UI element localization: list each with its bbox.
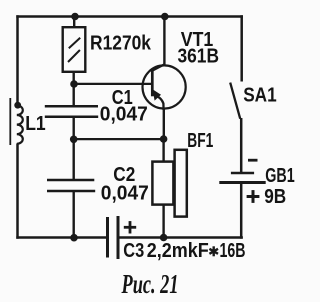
wire C1 bottom to junction (72, 117, 74, 140)
wire BF1 bottom stub (162, 205, 164, 239)
wire junction to C2 (72, 139, 74, 180)
capacitor C3 asterisk (209, 246, 218, 256)
node dot R1 bottom / base (70, 80, 78, 88)
inductor L1 start dot (14, 102, 21, 109)
svg-text:C3: C3 (123, 240, 144, 262)
svg-text:16В: 16В (220, 240, 246, 262)
battery GB1 plus sign (247, 195, 260, 198)
wire right vertical lower (battery to bottom) (240, 183, 243, 239)
node dot emitter / BF1 junction (160, 135, 168, 143)
svg-text:SA1: SA1 (243, 85, 277, 107)
capacitor C3 left plate (106, 217, 109, 258)
node dot bottom wire / C2 (70, 234, 78, 242)
wire R1 bottom to C1 (72, 71, 74, 107)
battery GB1 positive plate (219, 181, 265, 184)
wire bottom-right horizontal (119, 236, 243, 239)
svg-text:0,047: 0,047 (100, 104, 148, 126)
earphone BF1 diaphragm (175, 150, 187, 217)
earphone BF1 body (152, 162, 173, 205)
svg-text:361В: 361В (178, 46, 220, 68)
inductor L1 core bar (9, 98, 11, 145)
battery GB1 minus sign (248, 159, 258, 162)
svg-text:L1: L1 (25, 113, 46, 135)
capacitor C3 right plate (117, 216, 120, 259)
transistor VT1 collector stroke (153, 64, 165, 70)
wire collector vertical (163, 16, 165, 66)
transistor VT1 emitter arrow (153, 89, 162, 100)
node dot top wire / collector (161, 13, 169, 21)
switch SA1 blade (230, 83, 240, 119)
transistor VT1 emitter stroke (153, 94, 164, 110)
wire bottom-left horizontal (16, 236, 106, 239)
wire base horizontal (74, 83, 152, 85)
capacitor C2 plates (47, 179, 94, 182)
capacitor C1 plates (45, 105, 98, 108)
wire left vertical lower (16, 144, 19, 239)
resistor R1 slash marks (69, 38, 80, 48)
wire right vertical upper (240, 15, 243, 81)
wire BF1 top stub (162, 139, 164, 163)
capacitor C3 plus sign (124, 226, 136, 229)
svg-text:GB1: GB1 (265, 165, 295, 187)
node dot C1 bottom junction (70, 136, 78, 144)
inductor L1 winding (17, 105, 23, 143)
svg-text:2,2mkF: 2,2mkF (147, 240, 209, 262)
svg-text:9В: 9В (264, 186, 286, 208)
transistor VT1 circle (143, 65, 186, 108)
svg-text:Рис. 21: Рис. 21 (121, 269, 179, 299)
wire right vertical middle (switch to battery) (240, 118, 243, 173)
node dot bottom wire / BF1 (160, 234, 168, 242)
svg-text:BF1: BF1 (187, 130, 213, 152)
wire R1 top stub (73, 16, 75, 28)
wire emitter vertical (163, 109, 165, 141)
wire left vertical upper (16, 15, 19, 106)
svg-text:R1270k: R1270k (90, 32, 152, 54)
battery GB1 negative plate (231, 172, 254, 175)
transistor VT1 base bar (151, 70, 154, 96)
wire C2 bottom to bottom wire (72, 192, 74, 239)
node dot top wire / R1 (71, 13, 79, 21)
svg-text:0,047: 0,047 (101, 183, 149, 205)
wire emitter junction horizontal (74, 138, 164, 140)
resistor R1 body (63, 27, 86, 72)
wire top horizontal (16, 15, 243, 18)
